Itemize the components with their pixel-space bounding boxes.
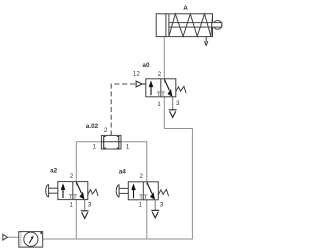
svg-text:1: 1 (157, 101, 161, 108)
svg-text:2: 2 (140, 173, 144, 180)
svg-text:a0: a0 (142, 62, 150, 69)
svg-text:3: 3 (160, 202, 164, 209)
svg-text:2: 2 (104, 127, 108, 134)
svg-text:1: 1 (126, 143, 130, 150)
svg-text:a.02: a.02 (86, 123, 99, 130)
svg-text:2: 2 (70, 173, 74, 180)
svg-text:12: 12 (133, 70, 141, 77)
svg-text:A: A (183, 5, 188, 12)
svg-text:a4: a4 (119, 169, 127, 176)
svg-text:3: 3 (176, 100, 180, 107)
svg-text:1: 1 (139, 202, 143, 209)
svg-text:1: 1 (93, 143, 97, 150)
svg-text:3: 3 (88, 202, 92, 209)
svg-text:a2: a2 (50, 167, 58, 174)
svg-text:1: 1 (69, 202, 73, 209)
svg-text:2: 2 (158, 71, 162, 78)
